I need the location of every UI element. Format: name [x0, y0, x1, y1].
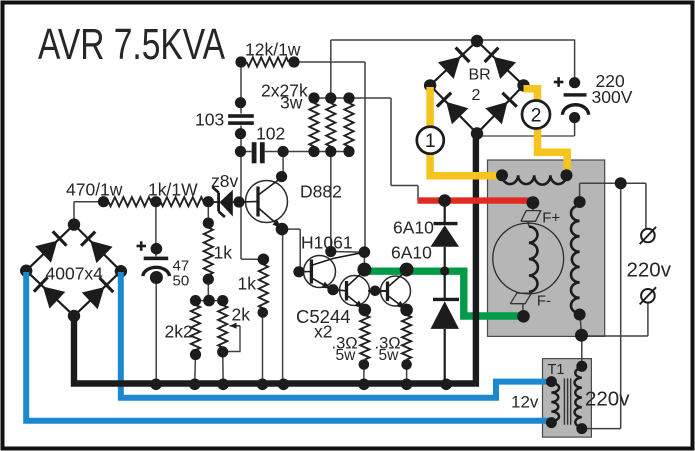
svg-text:1k: 1k: [214, 243, 233, 263]
svg-text:300V: 300V: [592, 87, 633, 107]
svg-text:3w: 3w: [280, 93, 303, 113]
svg-text:6A10: 6A10: [391, 243, 432, 263]
svg-text:H1061: H1061: [301, 233, 353, 253]
svg-text:F-: F-: [537, 293, 551, 310]
svg-text:D882: D882: [300, 182, 342, 202]
svg-text:2k: 2k: [232, 305, 251, 325]
svg-text:103: 103: [195, 110, 224, 130]
svg-text:5w: 5w: [379, 347, 400, 364]
svg-text:1: 1: [425, 130, 436, 152]
svg-text:1k: 1k: [238, 274, 257, 294]
svg-text:102: 102: [256, 124, 285, 144]
svg-text:6A10: 6A10: [393, 218, 434, 238]
svg-text:x2: x2: [314, 322, 332, 342]
svg-text:470/1w: 470/1w: [66, 180, 123, 200]
svg-text:4007x4: 4007x4: [46, 264, 104, 284]
svg-text:2: 2: [472, 87, 481, 104]
svg-text:12v: 12v: [511, 393, 539, 412]
svg-text:z8v: z8v: [211, 171, 238, 191]
svg-text:2: 2: [531, 104, 542, 126]
svg-text:AVR 7.5KVA: AVR 7.5KVA: [38, 20, 225, 69]
svg-text:BR: BR: [469, 67, 491, 84]
svg-text:50: 50: [173, 273, 190, 290]
svg-text:220v: 220v: [627, 259, 672, 282]
svg-text:12k/1w: 12k/1w: [245, 40, 301, 60]
svg-text:220v: 220v: [585, 388, 630, 411]
svg-text:T1: T1: [548, 362, 565, 378]
svg-text:1k/1W: 1k/1W: [148, 180, 198, 200]
svg-text:2k2: 2k2: [165, 322, 193, 342]
svg-text:5w: 5w: [336, 347, 357, 364]
svg-text:F+: F+: [542, 210, 560, 227]
